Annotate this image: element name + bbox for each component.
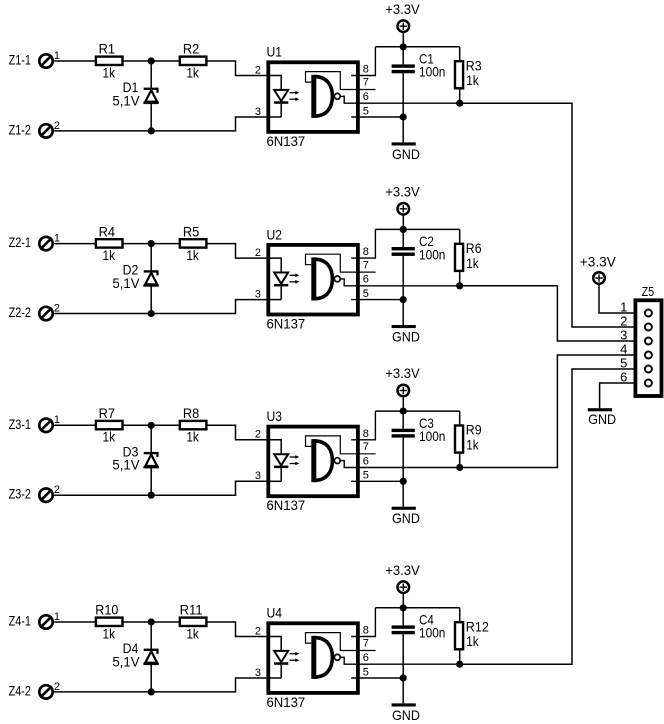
wire to pin 2 [207,425,266,440]
pin 4 of Z5 [620,342,652,359]
svg-text:1k: 1k [466,633,479,649]
optocoupler U2 [268,245,358,315]
power +3.3V near Z5 [593,272,605,284]
svg-text:3: 3 [255,289,261,301]
svg-text:5,1V: 5,1V [112,275,140,291]
svg-text:U1: U1 [267,44,283,60]
zener diode D3 [143,453,158,467]
wire to pin 2 [207,61,266,76]
wire [150,665,152,692]
svg-text:100n: 100n [419,64,445,80]
junction [148,618,155,625]
svg-text:5: 5 [363,666,369,678]
wire enable to pin 7 [306,633,376,651]
svg-text:Z5: Z5 [642,284,655,299]
svg-text:3: 3 [255,470,261,482]
wire +3.3V rail [375,46,459,48]
ground [392,703,416,706]
ground near Z5 [588,408,612,411]
LED inside U1 [267,76,300,118]
wire [150,104,152,131]
junction [148,422,155,429]
svg-text:1k: 1k [186,64,199,80]
wire to pin 2 [207,622,266,637]
pin 2 of Z5 [620,314,652,331]
optocoupler U4 [268,623,358,693]
junction [456,464,463,471]
svg-text:R4: R4 [99,223,116,239]
terminal Z3-2 [39,489,52,502]
junction [148,57,155,64]
svg-text:8: 8 [363,428,369,440]
svg-text:R2: R2 [183,41,200,57]
svg-text:Z3-1: Z3-1 [9,416,32,432]
junction [148,127,155,134]
svg-text:5: 5 [363,105,369,117]
connector Z5 [635,300,661,396]
svg-text:8: 8 [363,64,369,76]
svg-text:2: 2 [255,429,261,441]
svg-text:1k: 1k [186,247,199,263]
wire [150,244,152,271]
svg-text:GND: GND [588,411,616,427]
junction [400,478,407,485]
gate inside U4 [311,636,340,679]
gate inside U1 [311,75,340,118]
wire pin 5 to GND [351,116,403,118]
capacitor C3 [392,411,415,507]
svg-text:+3.3V: +3.3V [385,184,420,200]
svg-text:3: 3 [255,106,261,118]
terminal Z4-2 [39,685,52,698]
svg-text:1k: 1k [103,247,116,263]
wire pin 5 to GND [351,299,403,301]
resistor R9 [455,411,463,467]
svg-text:7: 7 [363,441,369,453]
pin 6 of Z5 [620,370,652,387]
svg-text:U4: U4 [267,605,283,621]
svg-text:R3: R3 [466,57,482,73]
svg-text:1k: 1k [466,437,479,453]
wire pin 8 to +3.3V [351,608,375,637]
svg-text:R12: R12 [466,618,489,634]
ground [392,507,416,510]
svg-text:R10: R10 [95,602,118,618]
junction [456,100,463,107]
gate inside U3 [311,439,340,482]
LED inside U2 [267,258,300,300]
resistor R8 [180,421,207,429]
svg-text:5: 5 [363,288,369,300]
wire [123,60,179,62]
svg-text:1: 1 [54,611,60,623]
svg-text:1k: 1k [103,64,116,80]
svg-text:1: 1 [54,414,60,426]
wire [123,424,179,426]
svg-text:R9: R9 [466,422,482,438]
capacitor C1 [392,47,415,143]
svg-text:5,1V: 5,1V [112,653,140,669]
junction [400,113,407,120]
terminal Z1-2 [39,124,52,137]
junction [148,688,155,695]
wire output pin 6 [340,96,460,103]
junction [148,310,155,317]
wire pin 8 to +3.3V [351,229,375,258]
wire U4 pin 6 to Z5 pin 5 [460,369,636,664]
wire +3.3V rail [375,410,459,412]
zener diode D2 [143,271,158,285]
svg-text:7: 7 [363,77,369,89]
wire [123,621,179,623]
junction [148,492,155,499]
wire output pin 6 [340,461,460,468]
svg-text:R5: R5 [183,223,200,239]
terminal Z1-1 [39,54,52,67]
svg-text:8: 8 [363,625,369,637]
junction [456,661,463,668]
svg-text:6: 6 [363,652,369,664]
junction [400,674,407,681]
svg-text:+3.3V: +3.3V [580,253,617,269]
svg-text:Z2-2: Z2-2 [9,304,32,320]
junction [400,43,407,50]
power +3.3V [398,203,410,229]
svg-text:Z3-2: Z3-2 [9,486,32,502]
svg-text:Z2-1: Z2-1 [9,234,32,250]
wire pin 8 to +3.3V [351,47,375,76]
power +3.3V [398,20,410,46]
wire +3.3V to Z5 pin 1 [599,284,634,313]
terminal Z2-1 [39,237,52,250]
wire [54,424,95,426]
svg-text:1k: 1k [103,625,116,641]
wire +3.3V rail [375,228,459,230]
wire Z5 pin 6 to ground [600,383,636,408]
zener diode D4 [143,650,158,664]
resistor R1 [96,57,123,65]
svg-text:5: 5 [363,470,369,482]
svg-text:Z4-2: Z4-2 [9,682,32,698]
wire enable to pin 7 [306,436,376,454]
svg-text:R1: R1 [99,41,116,57]
capacitor C2 [392,229,415,325]
svg-text:+3.3V: +3.3V [385,365,420,381]
svg-text:1k: 1k [186,429,199,445]
svg-text:6: 6 [363,91,369,103]
resistor R11 [180,618,207,626]
wire bottom to pin 3 [54,117,266,131]
svg-text:+3.3V: +3.3V [385,562,420,578]
ground [392,142,416,145]
pin 3 of Z5 [620,328,652,345]
svg-text:GND: GND [392,510,420,526]
wire pin 5 to GND [351,480,403,482]
svg-text:R11: R11 [180,602,203,618]
svg-text:8: 8 [363,246,369,258]
wire [54,60,95,62]
svg-text:6N137: 6N137 [267,497,306,513]
svg-text:3: 3 [255,667,261,679]
svg-text:6: 6 [363,274,369,286]
wire pin 5 to GND [351,677,403,679]
svg-text:Z1-1: Z1-1 [9,52,32,68]
svg-text:2: 2 [255,64,261,76]
wire U3 pin 6 to Z5 pin 4 [460,355,636,468]
svg-text:5,1V: 5,1V [112,92,140,108]
optocoupler U3 [268,427,358,497]
wire [54,621,95,623]
pin 5 of Z5 [620,356,652,373]
wire U2 pin 6 to Z5 pin 3 [460,286,636,341]
resistor R4 [96,239,123,247]
terminal Z2-2 [39,307,52,320]
svg-text:GND: GND [392,707,420,723]
optocoupler U1 [268,62,358,132]
svg-text:2: 2 [54,681,60,693]
wire [150,287,152,314]
wire [150,61,152,88]
junction [400,408,407,415]
svg-text:1k: 1k [186,625,199,641]
svg-text:2: 2 [54,302,60,314]
resistor R10 [96,618,123,626]
svg-text:Z1-2: Z1-2 [9,121,32,137]
wire output pin 6 [340,279,460,286]
ground [392,325,416,328]
capacitor C4 [392,608,415,704]
svg-text:1k: 1k [466,72,479,88]
svg-text:2: 2 [54,484,60,496]
power +3.3V [398,581,410,607]
wire pin 8 to +3.3V [351,411,375,440]
junction [400,226,407,233]
svg-text:2: 2 [54,120,60,132]
resistor R6 [455,229,463,285]
zener diode D1 [143,89,158,103]
svg-text:U2: U2 [267,226,283,242]
svg-text:GND: GND [392,328,420,344]
wire enable to pin 7 [306,72,376,90]
svg-text:6N137: 6N137 [267,694,306,710]
svg-text:7: 7 [363,259,369,271]
svg-text:100n: 100n [419,428,445,444]
wire [150,622,152,649]
svg-text:6: 6 [363,455,369,467]
svg-text:6N137: 6N137 [267,316,306,332]
svg-text:1k: 1k [466,255,479,271]
svg-text:R8: R8 [183,405,200,421]
svg-text:+3.3V: +3.3V [385,1,420,17]
wire U1 pin 6 to Z5 pin 2 [460,103,636,327]
junction [400,296,407,303]
svg-text:R7: R7 [99,405,116,421]
junction [456,282,463,289]
wire bottom to pin 3 [54,678,266,692]
wire [123,243,179,245]
junction [400,604,407,611]
svg-text:U3: U3 [267,408,283,424]
svg-text:7: 7 [363,638,369,650]
wire to pin 2 [207,244,266,259]
svg-text:1: 1 [620,300,627,315]
pin 1 of Z5 [620,300,652,317]
LED inside U3 [267,440,300,482]
resistor R3 [455,47,463,103]
svg-text:1k: 1k [103,429,116,445]
svg-text:100n: 100n [419,246,445,262]
wire [150,425,152,452]
svg-text:2: 2 [255,625,261,637]
resistor R12 [455,608,463,664]
svg-text:5,1V: 5,1V [112,457,140,473]
svg-text:GND: GND [392,146,420,162]
wire enable to pin 7 [306,254,376,272]
LED inside U4 [267,637,300,679]
wire output pin 6 [340,657,460,664]
svg-text:R6: R6 [466,240,482,256]
wire bottom to pin 3 [54,481,266,495]
wire [54,243,95,245]
junction [148,240,155,247]
wire bottom to pin 3 [54,300,266,314]
wire +3.3V rail [375,607,459,609]
svg-text:1: 1 [54,233,60,245]
svg-text:100n: 100n [419,625,445,641]
svg-text:1: 1 [54,50,60,62]
resistor R5 [180,239,207,247]
power +3.3V [398,385,410,411]
wire [150,468,152,495]
terminal Z4-1 [39,615,52,628]
resistor R7 [96,421,123,429]
gate inside U2 [311,257,340,300]
svg-text:6N137: 6N137 [267,133,306,149]
svg-text:Z4-1: Z4-1 [9,613,32,629]
svg-text:2: 2 [255,247,261,259]
resistor R2 [180,57,207,65]
terminal Z3-1 [39,419,52,432]
